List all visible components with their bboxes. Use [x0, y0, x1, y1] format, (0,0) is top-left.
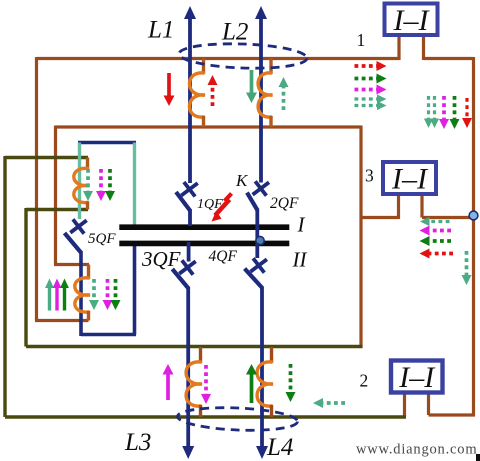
wire top secondary bus (brown) y=58: [37, 57, 400, 60]
arrow green dotted right to box1: [355, 74, 387, 84]
label busbar I: [297, 213, 306, 237]
arrow green dotted down (right side): [450, 96, 460, 129]
svg-text:L3: L3: [124, 429, 151, 456]
line L4 from busbar II: [255, 243, 259, 258]
wire box3 to right node (brown) y=217.5: [422, 216, 474, 219]
arrow green solid up (L4 primary): [246, 364, 257, 403]
wire left vertical from top bus (brown) x=36.5: [35, 57, 38, 321]
label L1: [147, 17, 174, 44]
arrow magenta solid up (5QF CT2): [53, 279, 62, 311]
busbar I: [119, 224, 289, 230]
arrow teal dotted left to box3: [420, 217, 450, 226]
arrow red dotted down (right side): [462, 98, 472, 128]
wire olive bottom horizontal y=417: [5, 415, 406, 418]
wire box3 left pin (brown): [397, 192, 400, 219]
wire olive top horizontal y=157.5: [5, 156, 88, 159]
CT coil on L2 top: [258, 59, 272, 128]
arrow teal dotted right to box1 (first): [355, 94, 387, 103]
wire second secondary bus (brown) y=127: [56, 125, 362, 128]
svg-text:www.diangon.com: www.diangon.com: [356, 442, 477, 458]
wire right edge vertical (brown) x=473.5: [472, 57, 475, 415]
svg-text:1: 1: [357, 30, 366, 50]
svg-text:3QF: 3QF: [141, 247, 181, 271]
svg-text:1QF: 1QF: [197, 197, 223, 212]
arrow green solid down (L2 primary): [246, 70, 257, 103]
arrow magenta dotted down (right side): [439, 96, 449, 129]
arrow magenta dotted down (L3 secondary): [201, 365, 211, 404]
svg-text:I–I: I–I: [391, 163, 429, 196]
arrow red dotted right to box1: [355, 61, 387, 71]
arrow teal dotted down below node: [462, 251, 472, 285]
breaker 5QF cross: [70, 219, 86, 233]
label 2QF: [270, 195, 299, 212]
wire navy rect right vertical x=134.5: [133, 243, 137, 335]
CT coil 5QF upper: [74, 158, 89, 210]
breaker 3QF blade: [172, 269, 188, 289]
arrow teal dotted left to box2: [313, 398, 345, 408]
line L3 from busbar II: [187, 242, 191, 262]
CT coil on L1 top: [189, 59, 205, 128]
dashed ellipse around bottom CTs: [177, 405, 298, 432]
wire box3 right pin (brown): [420, 192, 423, 218]
breaker 2QF cross: [253, 181, 269, 195]
label L3: [124, 429, 151, 456]
CT coil 5QF lower: [75, 265, 90, 321]
line L2 upper segment: [255, 6, 267, 183]
wire navy rect bottom y=334.5: [81, 333, 136, 337]
svg-text:I: I: [297, 213, 306, 237]
label busbar II: [292, 248, 308, 272]
svg-text:II: II: [292, 248, 308, 272]
arrow green dotted down (L4 secondary): [286, 364, 296, 402]
watermark www.diangon.com: [356, 442, 477, 458]
arrow magenta solid up (L3 primary): [163, 364, 174, 400]
line L1 upper segment: [184, 6, 196, 183]
arrow green dotted down (5QF CT1): [105, 169, 115, 201]
wire navy top horizontal of 5QF branch y=142.5: [78, 141, 136, 144]
line L2 to busbar II: [255, 209, 259, 241]
relay box 2 I-I: [391, 361, 443, 395]
wire bottom horizontal to 5QF CT2 lower tap (brown): [35, 319, 89, 322]
arrow red solid down (L1 primary): [164, 73, 175, 106]
line L3 lower segment: [182, 287, 194, 459]
arrow teal dotted right to box1 (second): [355, 101, 387, 110]
arrow magenta dotted right to box1: [355, 85, 387, 95]
arrow green solid up (5QF CT2): [60, 279, 69, 311]
wire box1 right pin (brown): [422, 33, 425, 60]
wire olive outer left vertical x=5: [3, 156, 6, 417]
wire box2 to right edge (brown) y=415: [429, 413, 476, 416]
fault lightning arrow at K: [212, 194, 232, 222]
label 4QF: [209, 248, 238, 265]
wire horizontal into box3 left pin (brown) y=217.5: [360, 216, 399, 219]
arrow magenta dotted left to box3: [420, 226, 452, 236]
label 1QF: [197, 197, 223, 212]
arrow teal solid up (5QF CT2): [45, 279, 54, 311]
arrow teal dotted down (5QF CT2): [89, 279, 99, 310]
breaker 3QF cross: [179, 260, 195, 274]
wire olive inner vertical x=26: [24, 208, 27, 347]
wire olive inner horizontal y=209.5: [26, 208, 88, 211]
svg-text:4QF: 4QF: [209, 248, 238, 265]
svg-text:3: 3: [365, 166, 374, 186]
wire left vertical 2 (brown) x=55.5: [54, 126, 57, 265]
label K: [235, 171, 249, 190]
breaker 2QF blade: [247, 193, 257, 210]
wire top right horizontal (brown): [424, 57, 474, 60]
breaker 4QF cross: [251, 258, 267, 272]
svg-text:K: K: [235, 171, 249, 190]
CT coil on L3 bottom: [186, 347, 202, 417]
wire teal left vertical x=79.5: [78, 143, 81, 220]
arrow red dotted up (L1 secondary): [208, 75, 218, 106]
label 3: [365, 166, 374, 186]
breaker 1QF cross: [181, 182, 197, 196]
CT coil on L4 bottom: [257, 347, 273, 417]
svg-text:2QF: 2QF: [270, 195, 299, 212]
node on right edge wire: [469, 211, 478, 220]
wire box1 left pin (brown): [397, 33, 400, 60]
wire box2 right pin (brown): [427, 390, 430, 415]
svg-text:L2: L2: [221, 19, 248, 46]
wire teal right vertical x=134.5: [133, 143, 136, 227]
label 5QF: [88, 231, 116, 247]
arrow teal dotted down (right side, first): [424, 96, 433, 128]
label 3QF: [141, 247, 181, 271]
label 1: [357, 30, 366, 50]
svg-text:5QF: 5QF: [88, 231, 116, 247]
breaker 5QF blade: [65, 233, 82, 253]
wire olive lower horizontal y=346.5: [26, 345, 363, 348]
node dot on busbar II: [256, 236, 264, 244]
svg-text:I–I: I–I: [393, 4, 431, 37]
dashed ellipse around top CTs: [179, 42, 308, 70]
wire vertical to relay box 3 (brown) x=361: [359, 126, 362, 348]
arrow green dotted down (5QF CT2): [111, 279, 121, 310]
arrow magenta dotted down (5QF CT1): [96, 169, 106, 201]
relay box 3 I-I: [383, 162, 436, 196]
busbar II: [119, 241, 289, 247]
line L1 to busbar I: [188, 209, 192, 226]
wire navy below 5QF x=81: [79, 251, 83, 336]
arrow green dotted left to box3: [420, 236, 452, 246]
arrow red dotted left to box3: [420, 249, 454, 259]
arrow teal dotted up (L2 secondary): [279, 77, 289, 110]
svg-text:I–I: I–I: [398, 361, 436, 394]
relay box 1 I-I: [385, 4, 438, 37]
corner black mark: [476, 454, 480, 461]
svg-text:2: 2: [360, 371, 369, 391]
svg-text:L4: L4: [266, 434, 293, 461]
label L4: [266, 434, 293, 461]
wire box2 left pin (brown): [403, 390, 406, 417]
label 2: [360, 371, 369, 391]
wire horizontal to 5QF CT2 upper tap (brown): [54, 263, 89, 266]
svg-text:L1: L1: [147, 17, 174, 44]
line L4 lower segment: [256, 287, 268, 460]
label L2: [221, 19, 248, 46]
breaker 1QF blade: [176, 192, 190, 211]
arrow teal dotted down (right side, second): [430, 96, 439, 128]
arrow magenta dotted down (5QF CT2): [103, 279, 113, 310]
arrow teal dotted down (5QF CT1): [83, 169, 93, 201]
breaker 4QF blade: [245, 269, 263, 288]
